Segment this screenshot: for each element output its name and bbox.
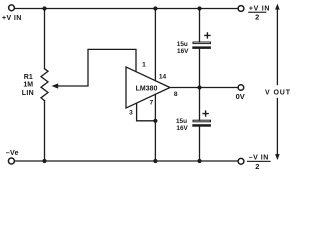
node bottom pot junction: [42, 159, 46, 163]
wire cap C1 top: [199, 9, 201, 43]
node bottom cap junction: [197, 159, 201, 163]
label R1 1M LIN: [22, 74, 34, 97]
svg-text:1M: 1M: [23, 82, 33, 89]
terminal +V IN: [9, 5, 15, 11]
svg-text:16V: 16V: [176, 125, 188, 132]
svg-text:8: 8: [174, 91, 178, 98]
svg-text:LIN: LIN: [22, 90, 34, 97]
wire cap C2 bottom: [199, 127, 201, 161]
V OUT dimension line upper: [276, 8, 278, 85]
label C1 15u 16V: [177, 41, 189, 55]
op-amp U1 LM380: [126, 67, 170, 108]
svg-text:R1: R1: [24, 74, 33, 81]
V OUT dimension line lower: [276, 99, 278, 156]
wire pin 14 supply: [154, 9, 156, 81]
svg-text:14: 14: [159, 73, 167, 80]
resistor R1 potentiometer: [41, 69, 48, 101]
wire top rail: [15, 8, 238, 10]
node pin3/pin7 junction: [153, 119, 157, 123]
node output cap junction: [197, 85, 201, 89]
capacitor C2 15u 16V: [192, 120, 211, 127]
terminal +V IN/2: [238, 6, 244, 12]
svg-text:7: 7: [149, 99, 153, 106]
label +V IN/2: [248, 6, 270, 22]
svg-text:1: 1: [142, 62, 146, 69]
wire pot top feed: [44, 9, 46, 69]
wire cap C1 bottom to output: [199, 49, 201, 88]
wire cap C2 top: [199, 88, 201, 121]
wiper arrow: [52, 83, 59, 88]
svg-text:+V IN: +V IN: [249, 6, 270, 13]
node top pin14 junction: [153, 6, 157, 10]
node bottom pin7 junction: [153, 159, 157, 163]
terminal -Ve: [8, 158, 14, 164]
svg-text:16V: 16V: [177, 48, 189, 55]
label -V IN/2: [247, 154, 271, 171]
terminal 0V: [238, 85, 244, 91]
wire pin 3 to pin 7 line: [137, 103, 156, 121]
svg-text:2: 2: [255, 162, 259, 171]
svg-text:V OUT: V OUT: [265, 89, 291, 96]
terminal -V IN/2: [238, 158, 244, 164]
V OUT arrow up: [275, 4, 280, 10]
svg-text:2: 2: [255, 13, 259, 22]
polarity + C2: [203, 111, 208, 116]
wire bottom rail: [15, 160, 238, 162]
wire pin 7 down: [154, 94, 156, 161]
svg-text:3: 3: [129, 109, 133, 116]
polarity + C1: [205, 33, 210, 38]
node top-left junction: [42, 6, 46, 10]
svg-text:0V: 0V: [236, 92, 245, 101]
capacitor C1 15u 16V: [192, 42, 211, 49]
wire wiper to pin1: [58, 49, 137, 86]
wire output pin 8: [170, 87, 238, 89]
node top cap junction: [197, 6, 201, 10]
svg-text:–V IN: –V IN: [249, 154, 269, 161]
svg-text:–Ve: –Ve: [6, 150, 19, 157]
label C2 15u 16V: [176, 118, 189, 132]
svg-text:+V IN: +V IN: [2, 15, 22, 22]
V OUT arrow down: [275, 154, 280, 160]
wire pot bottom: [44, 101, 46, 161]
svg-text:LM380: LM380: [136, 86, 158, 93]
